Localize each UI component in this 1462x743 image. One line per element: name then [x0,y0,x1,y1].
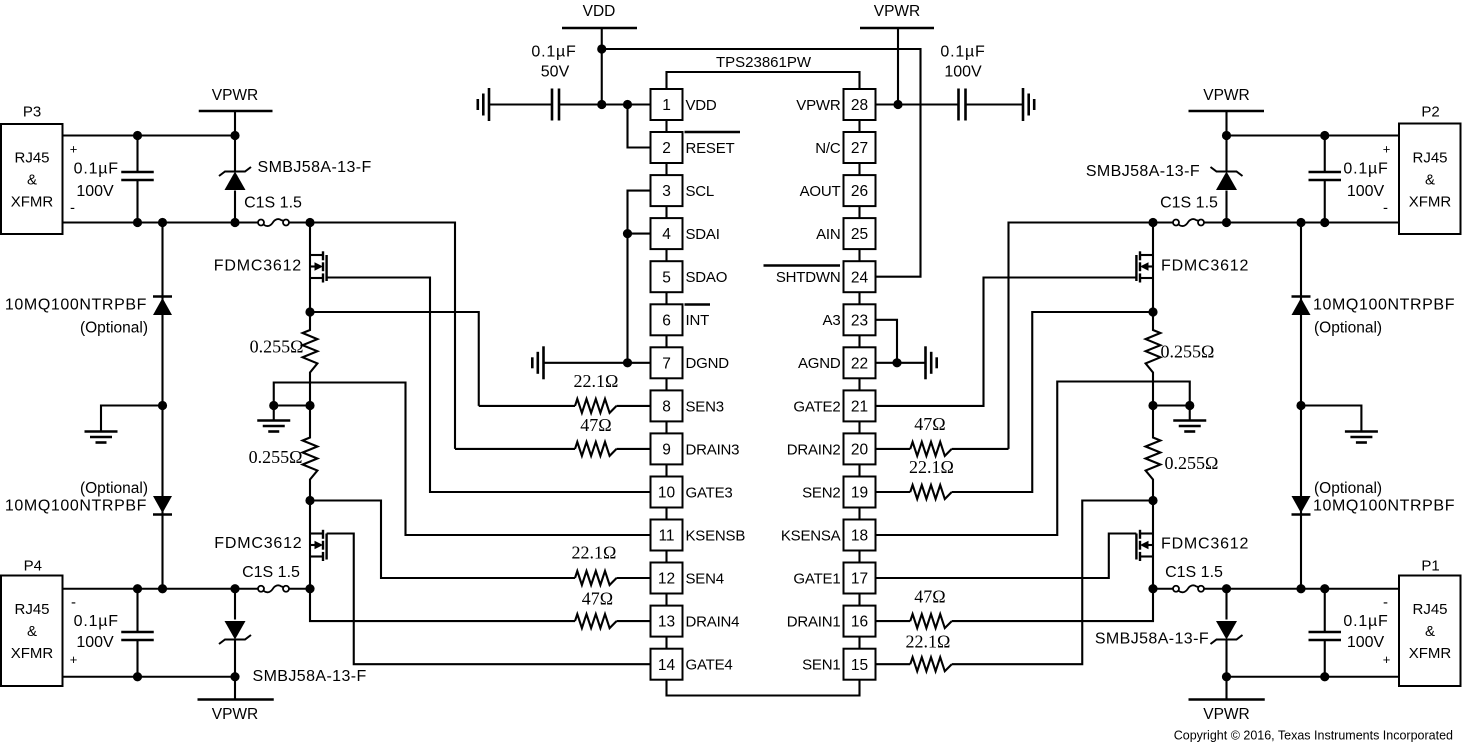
junction P2+ cap [1320,131,1329,140]
svg-text:7: 7 [662,355,671,372]
wire fuse to Q4 [289,588,310,590]
junction diode chain mid (left) [158,401,167,410]
wire P2 plus rail [1227,134,1400,136]
wire DRAIN2 to resistor [952,448,1009,450]
resistor 22.1 ohm (SEN2) [910,485,952,499]
pin 25 box [844,218,876,261]
wire C-VPWR to ground [966,103,1024,105]
wire AGND [876,362,926,364]
wire resistor to pin 12 [617,577,651,579]
wire SEN3 riser [310,312,479,406]
TVS diode SMBJ58A-13-F (P2) [1211,136,1243,223]
svg-text:22.1Ω: 22.1Ω [572,543,617,563]
resistor 22.1 ohm (SEN3) [575,399,617,413]
svg-text:SEN4: SEN4 [686,570,724,587]
capacitor 0.1uF 100V (VPWR bypass) [957,89,960,121]
pin 7 box [651,347,683,390]
overline INT [685,303,711,305]
svg-text:RESET: RESET [686,140,735,157]
junction sense gnd b [305,401,314,410]
wire DRAIN1 riser [952,589,1153,621]
wire pin 4 stub [628,233,651,235]
svg-text:0.255Ω: 0.255Ω [1165,453,1219,473]
wire resistor to pin 9 [617,448,651,450]
port P3 RJ45 & XFMR [1,104,63,235]
resistor 47 ohm (DRAIN1) [910,614,952,628]
svg-text:(Optional): (Optional) [80,480,148,497]
wire pin 16 to resistor [876,620,911,622]
svg-text:100V: 100V [1347,183,1385,200]
wire GATE1 [876,534,1137,579]
svg-text:100V: 100V [76,183,114,200]
svg-text:47Ω: 47Ω [582,589,613,609]
svg-text:RJ45: RJ45 [14,150,49,167]
wire SEN4 riser [310,501,575,579]
junction Q2 source node [1148,307,1157,316]
junction AGND tie [892,358,901,367]
wire SEN3 to resistor [479,405,575,407]
ground AGND (sideways) [924,346,927,379]
junction P3- diode chain [158,218,167,227]
wire C-VDD to pin 1 [559,103,651,105]
label 0.1uF 100V (P1) [1343,613,1388,651]
pin 19 box [844,477,876,520]
junction P1- cap [1320,584,1329,593]
wire pin 20 to resistor [876,448,911,450]
junction P2- diode chain [1296,218,1305,227]
label 0.1uF 100V (P4) [74,613,119,651]
capacitor 0.1uF 100V (P1) [1309,589,1342,677]
svg-text:23: 23 [851,312,868,329]
svg-text:22.1Ω: 22.1Ω [574,371,619,391]
pin 2 box [651,132,683,175]
junction P4- TVS [230,584,239,593]
junction P1- TVS [1222,584,1231,593]
junction pin1/pin2 tie [623,100,632,109]
svg-text:&: & [1425,172,1435,189]
pin 8 box [651,390,683,433]
svg-text:0.1µF: 0.1µF [1343,613,1388,630]
svg-text:SCL: SCL [686,183,715,200]
svg-text:10MQ100NTRPBF: 10MQ100NTRPBF [1313,498,1455,515]
junction P1- diode chain [1296,584,1305,593]
svg-text:10MQ100NTRPBF: 10MQ100NTRPBF [5,297,147,314]
ground (diode chain, right) [1301,406,1378,443]
resistor 47 ohm (DRAIN3) [575,442,617,456]
svg-text:0.1µF: 0.1µF [74,161,119,178]
wire VDD to SHTDWN net [602,49,921,277]
svg-text:GATE2: GATE2 [793,398,840,415]
pin 15 box [844,649,876,680]
svg-text:SEN2: SEN2 [802,484,840,501]
wire ground to C-VDD [489,103,552,105]
capacitor 0.1uF 100V (P3) [121,136,154,223]
svg-text:P4: P4 [24,558,42,575]
wire fuse to Q3 drain node / DRAIN3 riser [289,223,455,449]
svg-text:+: + [1383,142,1391,157]
junction VDD/SHTDWN [597,44,606,53]
svg-text:VPWR: VPWR [1203,87,1250,104]
TVS diode SMBJ58A-13-F (P3) [219,136,251,223]
svg-text:22: 22 [851,355,868,372]
diode 10MQ100NTRPBF (upper left) [153,223,172,406]
svg-text:8: 8 [662,399,671,416]
resistor 0.255 ohm (sense 2) [1146,312,1161,406]
wire DRAIN3 to resistor [455,448,575,450]
junction P2+ TVS [1222,131,1231,140]
power flag VPWR (top) [860,3,934,105]
svg-text:0.1µF: 0.1µF [940,44,985,61]
svg-text:GATE1: GATE1 [793,570,840,587]
wire P1 plus rail [1227,676,1400,678]
svg-text:P3: P3 [23,104,41,121]
resistor 0.255 ohm (sense 3) [303,312,318,406]
svg-text:DRAIN4: DRAIN4 [686,614,740,631]
svg-text:11: 11 [658,528,674,545]
svg-text:VDD: VDD [686,97,717,114]
resistor 47 ohm (DRAIN4) [575,614,617,628]
junction P4+ cap [133,672,142,681]
svg-text:-: - [70,200,75,217]
svg-text:C1S 1.5: C1S 1.5 [244,195,302,212]
svg-text:10: 10 [658,485,676,502]
label 0.1uF 100V [940,44,985,81]
svg-text:0.255Ω: 0.255Ω [250,337,304,357]
svg-text:FDMC3612: FDMC3612 [1161,536,1249,553]
svg-text:10MQ100NTRPBF: 10MQ100NTRPBF [1313,297,1455,314]
ground (sense, right) [1173,406,1206,432]
svg-text:A3: A3 [823,312,841,329]
svg-text:100V: 100V [76,634,114,651]
svg-text:10MQ100NTRPBF: 10MQ100NTRPBF [5,498,147,515]
svg-text:VPWR: VPWR [874,3,921,20]
svg-text:16: 16 [851,614,868,631]
svg-text:VDD: VDD [583,3,616,20]
wire pin 28 to C-VPWR [876,103,959,105]
svg-text:VPWR: VPWR [1203,706,1250,723]
svg-text:TPS23861PW: TPS23861PW [716,54,812,71]
pin 10 box [651,477,683,520]
svg-text:&: & [27,623,37,640]
junction P4+ TVS [230,672,239,681]
transistor Q4 FDMC3612 [310,501,327,589]
svg-text:3: 3 [662,183,671,200]
junction P4- cap [133,584,142,593]
pin 28 box [844,89,876,132]
transistor Q3 FDMC3612 [310,223,327,313]
wire Q1 to fuse [1153,588,1173,590]
power flag VDD [562,3,637,105]
wire P3 minus rail [63,221,258,223]
wire KSENSA [876,382,1190,536]
pin 26 box [844,175,876,218]
fuse C1S 1.5 (P4) [258,586,264,592]
svg-text:12: 12 [658,571,675,588]
svg-text:18: 18 [851,528,868,545]
svg-text:KSENSB: KSENSB [686,527,746,544]
wire SEN1 riser [952,501,1153,665]
junction P4- diode chain [158,584,167,593]
wire resistor to pin 8 [617,405,651,407]
junction diode chain mid (right) [1296,401,1305,410]
label 0.1uF 100V (P2) [1343,161,1388,201]
svg-text:XFMR: XFMR [11,645,54,662]
power flag VPWR (P1) [1189,677,1265,723]
wire Q2 drain node to fuse [1153,221,1173,223]
junction Q3 drain node [305,218,314,227]
svg-text:AIN: AIN [816,226,840,243]
junction pin7 tie [623,358,632,367]
pin 12 box [651,563,683,606]
svg-text:15: 15 [851,657,868,674]
svg-text:P2: P2 [1421,104,1439,121]
junction P1+ TVS [1222,672,1231,681]
svg-text:22.1Ω: 22.1Ω [906,632,951,652]
pin 9 box [651,433,683,476]
svg-text:SDAO: SDAO [686,269,728,286]
ground (sense, left) [257,406,290,432]
svg-text:C1S 1.5: C1S 1.5 [242,564,300,581]
port P4 RJ45 & XFMR [1,558,63,687]
wire P4 plus rail [63,676,236,678]
svg-text:GATE3: GATE3 [686,484,733,501]
ground (VDD bypass, sideways) [488,88,491,121]
svg-text:DRAIN2: DRAIN2 [787,441,841,458]
svg-text:5: 5 [662,269,671,286]
pin 3 box [651,175,683,218]
svg-text:VPWR: VPWR [212,87,259,104]
capacitor 0.1uF 50V (VDD bypass) [551,89,554,121]
svg-text:17: 17 [851,571,868,588]
svg-text:VPWR: VPWR [796,97,841,114]
label 0.1uF 50V [531,44,576,81]
pin 5 box [651,261,683,304]
svg-text:SDAI: SDAI [686,226,720,243]
junction Q3 source node [305,307,314,316]
junction Q2 drain node [1148,218,1157,227]
label 0.1uF 100V (P3) [74,161,119,201]
svg-text:KSENSA: KSENSA [781,527,841,544]
svg-text:GATE4: GATE4 [686,657,733,674]
svg-text:24: 24 [851,269,869,286]
junction P3+ cap [133,131,142,140]
svg-text:22.1Ω: 22.1Ω [909,457,954,477]
svg-text:0.1µF: 0.1µF [531,44,576,61]
wire pin 23 to AGND [876,320,898,363]
svg-text:RJ45: RJ45 [1412,150,1447,167]
svg-text:C1S 1.5: C1S 1.5 [1160,195,1218,212]
wire P1 minus rail [1204,588,1399,590]
svg-text:FDMC3612: FDMC3612 [1161,258,1249,275]
pin 13 box [651,606,683,649]
svg-text:19: 19 [851,485,868,502]
resistor 22.1 ohm (SEN4) [575,571,617,585]
svg-text:2: 2 [662,140,671,157]
svg-text:&: & [27,172,37,189]
wire sense ground link (right) [1153,404,1190,406]
pin 4 box [651,218,683,261]
svg-text:DGND: DGND [686,355,730,372]
junction Q1 drain node [1148,496,1157,505]
junction VPWR node [893,100,902,109]
fuse C1S 1.5 (P2) [1173,220,1179,226]
svg-text:-: - [1383,594,1388,611]
pin 23 box [844,304,876,347]
resistor 0.255 ohm (sense 4) [303,406,318,501]
svg-text:(Optional): (Optional) [1314,320,1382,337]
ground (VPWR bypass, sideways) [1022,88,1025,121]
svg-text:47Ω: 47Ω [580,415,611,435]
svg-text:&: & [1425,623,1435,640]
svg-text:XFMR: XFMR [11,194,54,211]
ground (diode chain, left) [85,406,163,443]
svg-text:9: 9 [662,442,671,459]
wire P4 minus rail [63,588,258,590]
svg-text:-: - [71,594,76,611]
overline RESET [685,131,741,133]
pin 22 box [844,347,876,390]
wire DRAIN4 riser [310,589,575,621]
junction Q4 source node [305,584,314,593]
transistor Q1 FDMC3612 [1136,501,1153,589]
svg-text:26: 26 [851,183,868,200]
junction Q1 source node [1148,584,1157,593]
svg-text:SEN3: SEN3 [686,398,724,415]
ground DGND (sideways) [542,346,545,379]
svg-text:14: 14 [658,657,676,674]
diode 10MQ100NTRPBF (lower left) [153,406,172,589]
svg-text:SHTDWN: SHTDWN [776,269,841,286]
svg-text:DRAIN1: DRAIN1 [787,614,841,631]
power flag VPWR (P3) [199,87,273,136]
svg-text:RJ45: RJ45 [14,601,49,618]
U1 bottom bracket [667,680,860,696]
overline SHTDWN [764,264,841,266]
wire sense ground link [274,404,310,406]
pin 20 box [844,433,876,476]
wire GATE2 [876,278,1137,406]
resistor 0.255 ohm (sense 1) [1146,406,1161,501]
svg-text:SMBJ58A-13-F: SMBJ58A-13-F [253,668,367,685]
power flag VPWR (P4) [198,677,274,723]
wire GATE3 [327,278,651,493]
wire DGND [544,362,651,364]
junction pin4 tie [623,229,632,238]
pin 17 box [844,563,876,606]
svg-text:FDMC3612: FDMC3612 [214,535,302,552]
wire RESET tie to VDD [628,105,651,148]
wire pin 15 to resistor [876,663,911,665]
svg-text:+: + [70,652,78,667]
junction P1+ cap [1320,672,1329,681]
IC U1 TPS23861PW outline [667,72,860,89]
wire P2 minus rail [1204,221,1399,223]
wire pin 19 to resistor [876,491,911,493]
TVS diode SMBJ58A-13-F (P1) [1211,589,1243,677]
svg-text:N/C: N/C [815,140,841,157]
svg-text:0.1µF: 0.1µF [1343,161,1388,178]
svg-text:AOUT: AOUT [800,183,841,200]
pin 21 box [844,390,876,433]
svg-text:XFMR: XFMR [1409,645,1452,662]
capacitor 0.1uF 100V (P4) [121,589,154,677]
pin 24 box [844,261,876,304]
junction P3- cap [133,218,142,227]
svg-text:INT: INT [686,312,710,329]
svg-text:SMBJ58A-13-F: SMBJ58A-13-F [1086,163,1200,180]
pin 16 box [844,606,876,649]
svg-text:47Ω: 47Ω [914,414,945,434]
svg-text:0.255Ω: 0.255Ω [249,447,303,467]
svg-text:DRAIN3: DRAIN3 [686,441,740,458]
svg-text:C1S 1.5: C1S 1.5 [1165,564,1223,581]
svg-text:SMBJ58A-13-F: SMBJ58A-13-F [1095,631,1209,648]
svg-text:FDMC3612: FDMC3612 [214,258,302,275]
junction sense gnd c [1148,401,1157,410]
resistor 47 ohm (DRAIN2) [910,442,952,456]
junction P2- cap [1320,218,1329,227]
svg-text:100V: 100V [944,64,982,81]
port P1 RJ45 & XFMR [1399,558,1461,687]
diode 10MQ100NTRPBF (lower right) [1292,406,1311,589]
junction P3- TVS [230,218,239,227]
svg-text:P1: P1 [1421,558,1439,575]
power flag VPWR (P2) [1189,87,1265,136]
svg-text:0.1µF: 0.1µF [74,613,119,630]
junction sense gnd a [269,401,278,410]
svg-text:21: 21 [851,399,868,416]
transistor Q2 FDMC3612 [1136,223,1153,313]
svg-text:Copyright © 2016, Texas Instru: Copyright © 2016, Texas Instruments Inco… [1174,729,1453,743]
pin 11 box [651,520,683,563]
svg-text:47Ω: 47Ω [914,587,945,607]
port P2 RJ45 & XFMR [1399,104,1461,235]
svg-text:XFMR: XFMR [1409,194,1452,211]
wire pin 3 stub [628,191,651,363]
svg-text:SMBJ58A-13-F: SMBJ58A-13-F [258,159,372,176]
svg-text:(Optional): (Optional) [80,320,148,337]
fuse C1S 1.5 (P1) [1173,586,1179,592]
junction sense gnd d [1185,401,1194,410]
pin 14 box [651,649,683,680]
wire KSENSB [274,383,651,536]
wire GATE4 [327,534,651,665]
diode 10MQ100NTRPBF (upper right) [1292,223,1311,406]
svg-text:13: 13 [658,614,675,631]
svg-text:27: 27 [851,140,868,157]
junction P2- TVS [1222,218,1231,227]
wire P3 plus rail [63,134,236,136]
TVS diode SMBJ58A-13-F (P4) [219,589,251,677]
fuse C1S 1.5 (P3) [258,220,264,226]
svg-text:20: 20 [851,442,869,459]
pin 18 box [844,520,876,563]
svg-text:AGND: AGND [798,355,841,372]
pin 6 box [651,304,683,347]
wire resistor to pin 13 [617,620,651,622]
svg-text:RJ45: RJ45 [1412,601,1447,618]
svg-text:VPWR: VPWR [212,706,259,723]
svg-text:-: - [1383,200,1388,217]
svg-text:50V: 50V [541,64,570,81]
junction P3+ TVS [230,131,239,140]
svg-text:1: 1 [662,97,671,114]
svg-text:SEN1: SEN1 [802,657,840,674]
svg-text:4: 4 [662,226,671,243]
wire DRAIN2 riser [1009,223,1154,449]
wire SEN2 riser [952,312,1153,492]
junction VDD node [597,100,606,109]
